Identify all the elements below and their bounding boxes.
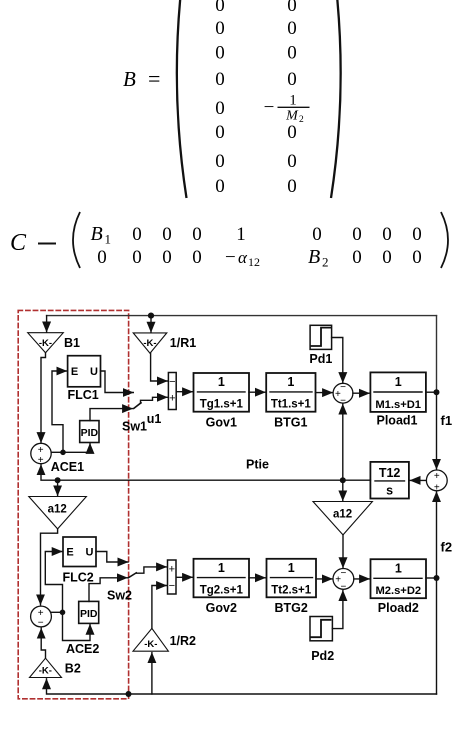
svg-text:1/R2: 1/R2 [170, 634, 196, 648]
svg-text:Pd2: Pd2 [311, 649, 334, 663]
svg-text:E: E [71, 366, 78, 378]
svg-text:U: U [90, 366, 98, 378]
svg-text:Sw2: Sw2 [107, 589, 132, 603]
svg-text:f1: f1 [441, 413, 453, 428]
wire Ptie up to sum circle 1 bottom [342, 404, 344, 480]
sum block 2 [168, 560, 177, 594]
svg-text:0: 0 [412, 247, 422, 268]
svg-text:C: C [10, 230, 27, 256]
matrix C left paren [73, 212, 80, 268]
svg-text:−: − [340, 568, 346, 579]
svg-text:Pd1: Pd1 [309, 352, 332, 366]
svg-text:-K-: -K- [143, 338, 156, 349]
svg-text:ACE2: ACE2 [66, 642, 99, 656]
svg-text:0: 0 [215, 151, 225, 172]
svg-text:0: 0 [287, 122, 297, 143]
wire B1 to ACE1 [41, 353, 46, 443]
svg-text:0: 0 [215, 176, 225, 197]
svg-text:-K-: -K- [39, 666, 52, 677]
svg-text:Pload2: Pload2 [378, 601, 419, 615]
svg-text:0: 0 [215, 122, 225, 143]
step source Pd1 [310, 325, 332, 349]
wire FLC1 U to Sw1 upper [101, 371, 134, 393]
svg-text:B: B [123, 67, 136, 91]
svg-text:0: 0 [162, 224, 172, 245]
wire PID2 out to Sw2 lower [89, 578, 127, 602]
svg-text:Gov2: Gov2 [206, 601, 237, 615]
wire Sw2 to sum2 plus [136, 567, 166, 573]
wire FLC2 U to Sw2 upper [96, 552, 128, 563]
svg-text:0: 0 [287, 18, 297, 39]
svg-text:0: 0 [215, 18, 225, 39]
wire Ptie line [41, 465, 370, 481]
svg-text:0: 0 [215, 98, 225, 119]
junction dot Ptie right [340, 477, 346, 483]
wire a12 right to sum circle area2 [342, 535, 344, 568]
block Pload2 [371, 559, 427, 598]
svg-text:0: 0 [287, 176, 297, 197]
svg-text:B: B [91, 223, 103, 245]
svg-text:0: 0 [412, 224, 422, 245]
wire Pd1 to sum circle 1 top [332, 338, 343, 383]
svg-text:1: 1 [288, 561, 295, 575]
block PID1 [80, 421, 99, 443]
sum circle tie [426, 470, 447, 491]
svg-text:α: α [238, 248, 248, 267]
junction dot top 1/R1 tap [148, 313, 154, 319]
svg-text:0: 0 [382, 247, 392, 268]
svg-text:BTG2: BTG2 [275, 601, 308, 615]
wire Pload2 to f2 node [426, 577, 437, 579]
wire 1/R1 to sum1 minus [151, 353, 168, 381]
svg-text:0: 0 [287, 69, 297, 90]
svg-text:PID: PID [81, 427, 99, 439]
svg-text:0: 0 [215, 69, 225, 90]
svg-text:2: 2 [322, 255, 329, 270]
svg-text:0: 0 [97, 247, 107, 268]
svg-text:+: + [434, 471, 440, 482]
svg-text:12: 12 [248, 255, 260, 269]
junction dot ACE2 out [60, 610, 66, 616]
svg-text:BTG1: BTG1 [274, 416, 307, 430]
wire f1 down to tie sum circle [436, 392, 438, 469]
svg-text:Tt1.s+1: Tt1.s+1 [271, 399, 312, 411]
step source Pd2 [310, 617, 332, 641]
wire f1 vertical to top [436, 316, 438, 393]
switch Sw2 lever [128, 573, 136, 578]
svg-text:a12: a12 [48, 504, 67, 516]
junction dot ACE1 out [60, 450, 66, 456]
svg-text:f2: f2 [441, 540, 453, 555]
wire sum circle 2 to Pload2 [354, 578, 370, 580]
svg-text:0: 0 [287, 0, 297, 16]
svg-text:+: + [169, 392, 175, 404]
svg-text:Sw1: Sw1 [122, 420, 147, 434]
sum circle area2 [333, 569, 354, 590]
svg-text:FLC2: FLC2 [63, 571, 94, 585]
svg-text:1: 1 [395, 561, 402, 575]
svg-text:u1: u1 [147, 412, 162, 426]
svg-text:0: 0 [132, 224, 142, 245]
svg-text:1/R1: 1/R1 [170, 336, 196, 350]
svg-text:0: 0 [215, 0, 225, 16]
wire Pload1 to f1 node [426, 391, 437, 393]
svg-text:B: B [308, 246, 320, 268]
sum block 1 [168, 373, 176, 410]
svg-text:1: 1 [289, 93, 297, 109]
block Gov2 [194, 559, 250, 598]
svg-text:−: − [340, 382, 346, 393]
block FLC1 [68, 356, 101, 387]
wire 1/R2 to sum2 minus [152, 586, 167, 629]
wire bottom to 1/R2 [151, 653, 153, 694]
svg-text:1: 1 [105, 232, 112, 247]
svg-text:a12: a12 [333, 509, 352, 521]
wire into 1/R1 gain [150, 316, 152, 333]
wire to PID1 input [63, 443, 90, 452]
block BTG1 [266, 373, 315, 412]
svg-text:U: U [86, 547, 94, 559]
wire PID1 out to Sw1 lower [90, 409, 133, 421]
wire ACE1 out [51, 451, 63, 453]
svg-text:FLC1: FLC1 [68, 388, 99, 402]
wire Gov1 to BTG1 [249, 391, 265, 393]
svg-text:E: E [66, 547, 73, 559]
block T12 [370, 462, 409, 499]
svg-text:T12: T12 [379, 466, 401, 480]
wire sum1 to Gov1 [176, 391, 192, 393]
red dashed boundary area1-2 controller [18, 310, 128, 698]
wire BTG2 to sum circle 2 [316, 578, 332, 580]
sum ACE1 [31, 443, 51, 463]
junction dot f1 [434, 389, 440, 395]
svg-text:1: 1 [395, 375, 402, 389]
junction dot f2 [434, 575, 440, 581]
matrix B right paren [331, 0, 341, 198]
junction dot Ptie left [55, 477, 61, 483]
gain B1 triangle [28, 333, 64, 353]
svg-text:−: − [38, 618, 44, 629]
wire Pd2 to sum circle 2 bottom [332, 591, 343, 629]
svg-text:-K-: -K- [144, 639, 157, 650]
matrix C right paren [441, 212, 448, 268]
svg-text:B1: B1 [64, 336, 80, 350]
svg-text:B2: B2 [65, 662, 81, 676]
svg-text:Tt2.s+1: Tt2.s+1 [271, 584, 312, 596]
wire bottom f2 feedback [47, 679, 437, 694]
sum circle area1 [333, 383, 353, 403]
svg-text:−: − [169, 580, 175, 592]
wire f2 up into tie sum circle [436, 492, 438, 694]
gain 1/R1 triangle [133, 333, 167, 353]
wire Gov2 to BTG2 [249, 577, 266, 579]
svg-text:0: 0 [192, 224, 202, 245]
svg-text:Pload1: Pload1 [377, 414, 418, 428]
svg-text:Tg1.s+1: Tg1.s+1 [200, 399, 244, 411]
wire to FLC1 E input [52, 371, 67, 452]
switch Sw1 lever [134, 403, 141, 409]
block BTG2 [267, 559, 317, 598]
wire ACE2 to FLC2 E input [45, 552, 62, 613]
matrix B left paren [177, 0, 187, 198]
wire sum2 to Gov2 [176, 576, 192, 578]
svg-text:−: − [264, 97, 275, 118]
svg-text:0: 0 [312, 224, 322, 245]
svg-text:2: 2 [299, 115, 304, 125]
block Gov1 [194, 373, 250, 412]
gain a12 right triangle [313, 502, 372, 535]
wire ACE2 to PID2 input [63, 612, 91, 640]
svg-text:M2.s+D2: M2.s+D2 [375, 585, 421, 597]
svg-text:ACE1: ACE1 [51, 460, 84, 474]
block FLC2 [63, 537, 96, 567]
wire tie sum to T12 [410, 479, 426, 481]
svg-text:0: 0 [352, 224, 362, 245]
svg-text:−: − [225, 247, 236, 268]
gain a12 left triangle [29, 497, 87, 529]
svg-text:1: 1 [236, 224, 246, 245]
svg-text:0: 0 [162, 247, 172, 268]
svg-text:Ptie: Ptie [246, 458, 269, 472]
svg-text:0: 0 [132, 247, 142, 268]
svg-text:Tg2.s+1: Tg2.s+1 [200, 584, 244, 596]
svg-text:=: = [148, 66, 160, 91]
wire Ptie into gain a12 right [342, 480, 344, 501]
svg-text:1: 1 [218, 375, 225, 389]
svg-text:M1.s+D1: M1.s+D1 [375, 399, 421, 411]
svg-text:0: 0 [352, 247, 362, 268]
svg-text:1: 1 [218, 561, 225, 575]
svg-text:0: 0 [192, 247, 202, 268]
wire sum circle 1 to Pload1 [353, 392, 370, 394]
svg-text:Gov1: Gov1 [206, 416, 237, 430]
wire ACE2 out [51, 611, 63, 613]
wire into B1 gain [46, 316, 48, 332]
block PID2 [79, 601, 99, 623]
svg-text:−: − [169, 376, 175, 388]
svg-text:PID: PID [80, 608, 98, 620]
svg-text:+: + [169, 564, 175, 576]
svg-text:0: 0 [215, 43, 225, 64]
wire Ptie into gain a12 left [57, 480, 59, 496]
wire BTG1 to sum circle 1 [316, 392, 333, 394]
junction dot bottom [126, 691, 132, 697]
svg-text:s: s [386, 484, 393, 498]
svg-text:0: 0 [287, 43, 297, 64]
svg-text:0: 0 [382, 224, 392, 245]
wire B2 to ACE2 bottom [41, 628, 45, 658]
svg-text:-K-: -K- [39, 338, 52, 349]
sum ACE2 [31, 606, 52, 627]
wire a12 left to ACE2 [41, 529, 58, 605]
block Pload1 [370, 372, 426, 412]
wire Sw1 to sum1 plus [141, 397, 168, 403]
svg-text:1: 1 [287, 375, 294, 389]
gain B2 triangle [30, 658, 62, 677]
gain 1/R2 triangle [133, 628, 168, 651]
svg-text:0: 0 [287, 151, 297, 172]
wire top horizontal feedback [47, 315, 437, 317]
